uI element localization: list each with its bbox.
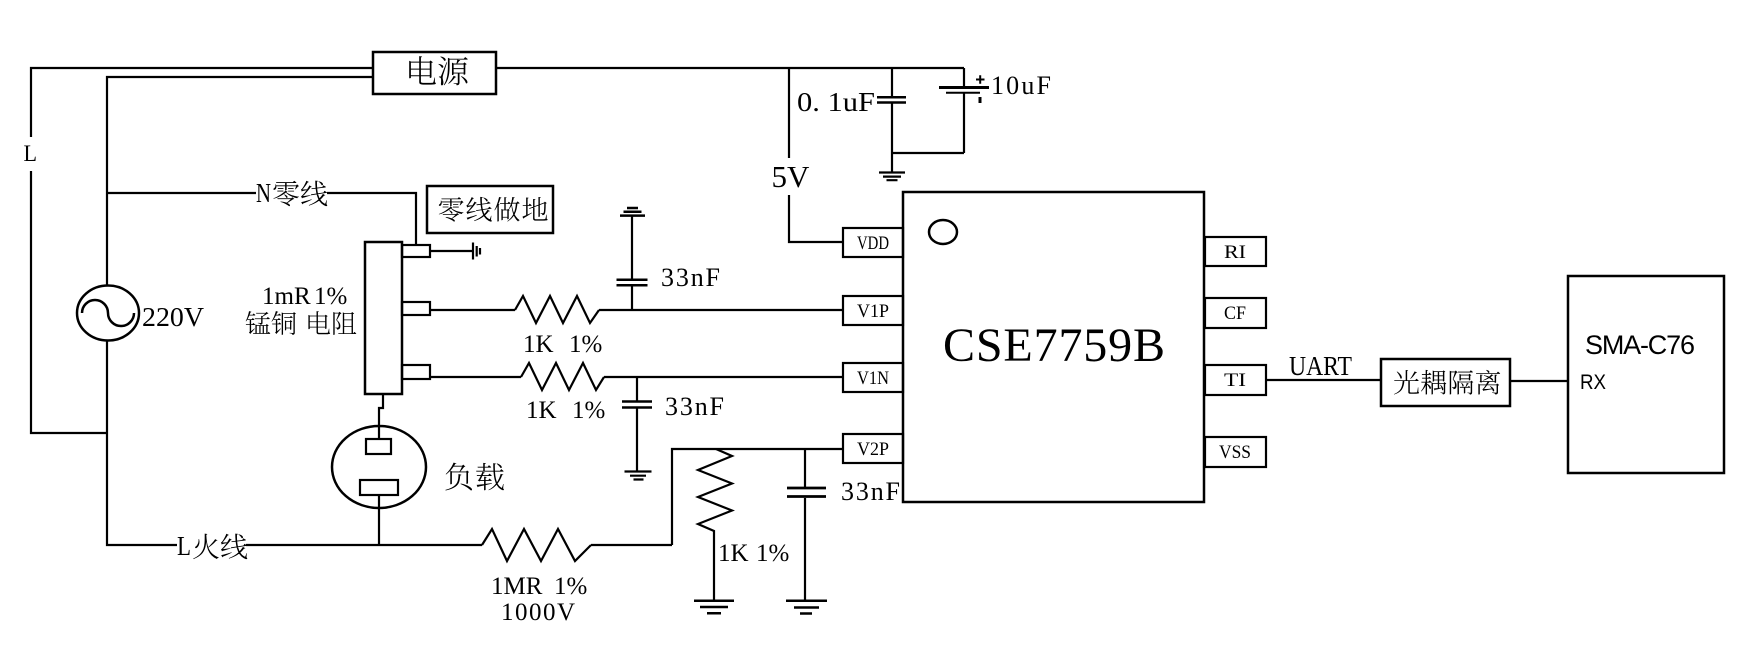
wire from AC source down to L-live wire corner — [107, 340, 177, 545]
wire TI to optocoupler (UART) — [1266, 379, 1381, 381]
svg-text:VDD: VDD — [857, 233, 889, 254]
wire N neutral from main vertical — [107, 192, 256, 194]
resistor 1MR 1% 1000V — [482, 529, 591, 561]
wire V2P branch — [672, 449, 843, 545]
pin V2P box — [843, 434, 903, 463]
pin RI box — [1205, 237, 1266, 266]
shunt middle tab (pin) — [402, 302, 430, 315]
wire load bottom to L-live wire — [378, 495, 380, 545]
wire shunt bottom to load — [379, 393, 383, 439]
svg-text:VSS: VSS — [1219, 442, 1251, 463]
svg-text:V1N: V1N — [857, 368, 889, 389]
svg-text:33nF: 33nF — [661, 263, 720, 292]
pin V1N box — [843, 363, 903, 392]
pin VDD box — [843, 228, 903, 257]
wire L outer loop lower segment — [31, 171, 107, 433]
svg-text:1%: 1% — [756, 540, 789, 567]
wire from power-supply box to decoupling caps — [496, 67, 964, 69]
svg-text:33nF: 33nF — [665, 392, 724, 421]
wire optocoupler to SMA-C76 — [1510, 380, 1568, 382]
shunt resistor 1mR body — [365, 242, 402, 394]
svg-text:V1P: V1P — [857, 301, 889, 322]
svg-text:1K: 1K — [718, 540, 749, 567]
svg-text:1%: 1% — [569, 331, 602, 358]
shunt bottom tab (pin) — [402, 365, 430, 379]
wire resistor to V1N pin — [604, 376, 843, 378]
pin VSS box — [1205, 437, 1266, 467]
wire resistor to V1P pin — [599, 309, 843, 311]
pin TI box — [1205, 365, 1266, 395]
pin CF box — [1205, 298, 1266, 328]
wire shunt bottom tab to resistor (V1N) — [430, 376, 521, 378]
wire from power-supply box to AC source (vertical main) — [107, 77, 373, 286]
svg-text:33nF: 33nF — [841, 477, 900, 506]
svg-text:1%: 1% — [314, 283, 347, 310]
svg-text:CSE7759B: CSE7759B — [943, 319, 1165, 372]
capacitor 10uF (polarized) — [939, 68, 989, 153]
resistor 1K 1% vertical (V2P divider) — [698, 449, 732, 600]
svg-text:L: L — [177, 531, 191, 561]
resistor 1K 1% (V1N) — [521, 363, 604, 390]
label L live wire (L huoxian) — [177, 531, 247, 561]
svg-text:SMA-C76: SMA-C76 — [1585, 330, 1695, 360]
label dianyuan (power supply) — [409, 56, 468, 85]
capacitor 0.1uF — [877, 68, 906, 153]
wire N neutral to shunt top tab — [327, 193, 416, 245]
label lingxian zuodi — [439, 197, 548, 222]
wire L line from source to power-supply box (outer loop, upper) — [31, 68, 373, 137]
label guang'ou geli (optocoupler isolation) — [1394, 370, 1500, 395]
svg-text:10uF: 10uF — [991, 71, 1051, 100]
svg-text:TI: TI — [1224, 370, 1246, 391]
wire shunt middle tab to resistor (V1P) — [430, 309, 515, 311]
svg-text:1K: 1K — [523, 331, 554, 358]
svg-text:0. 1uF: 0. 1uF — [797, 87, 875, 117]
label N neutral (N lingxian) — [256, 178, 327, 208]
svg-text:UART: UART — [1289, 351, 1352, 381]
resistor 1K 1% (V1P) — [515, 296, 599, 323]
svg-text:1MR: 1MR — [491, 573, 543, 600]
ground under 0.1uF — [879, 153, 905, 180]
svg-text:1mR: 1mR — [262, 283, 311, 310]
capacitor 33nF (V1N) — [622, 377, 652, 471]
capacitor 33nF (V2P) — [787, 449, 826, 600]
svg-text:1%: 1% — [572, 397, 605, 424]
box neutral-used-as-ground (lingxian zuodi) — [427, 186, 553, 233]
wire L live from label to resistor 1MR — [246, 544, 482, 546]
wire bottom of decoupling caps — [892, 152, 964, 154]
svg-text:5V: 5V — [772, 159, 811, 194]
svg-text:RX: RX — [1580, 371, 1606, 394]
load top terminal rect — [366, 439, 391, 454]
ground (flipped) above V1P cap — [620, 208, 645, 216]
load (fuzai) circle — [332, 426, 426, 508]
AC source 220V symbol — [77, 286, 139, 341]
ground under vertical 1K — [694, 601, 734, 614]
ground under V2P cap — [786, 601, 827, 614]
capacitor 33nF (V1P) — [617, 216, 648, 310]
chip pin-1 dot — [929, 220, 957, 244]
op-chip CSE7759B body — [903, 192, 1204, 502]
pin V1P box — [843, 296, 903, 325]
svg-text:220V: 220V — [142, 302, 205, 332]
svg-text:V2P: V2P — [857, 439, 889, 460]
load bottom terminal rect — [360, 480, 398, 495]
svg-text:N: N — [256, 178, 271, 208]
svg-text:1000V: 1000V — [501, 599, 575, 626]
svg-text:1K: 1K — [526, 397, 557, 424]
power supply box (dianyuan) — [373, 52, 496, 94]
wire 5V branch to VDD — [789, 68, 843, 242]
shunt top tab (pin) — [402, 245, 430, 257]
module SMA-C76 box — [1568, 276, 1724, 473]
svg-text:CF: CF — [1224, 303, 1246, 324]
ground (sideways) at shunt top tab — [473, 243, 480, 260]
optocoupler isolation box (guang'ou geli) — [1381, 359, 1510, 406]
label fuzai (load) — [445, 463, 504, 491]
label manganin resistor (mengtong dianzu) — [246, 311, 357, 335]
svg-text:1%: 1% — [554, 573, 587, 600]
wire from shunt top tab to ground — [430, 250, 472, 252]
ground under V1N cap — [625, 472, 652, 480]
wire from 1MR to V2P branch corner — [591, 544, 672, 546]
svg-text:L: L — [24, 141, 38, 166]
svg-text:RI: RI — [1224, 242, 1246, 263]
